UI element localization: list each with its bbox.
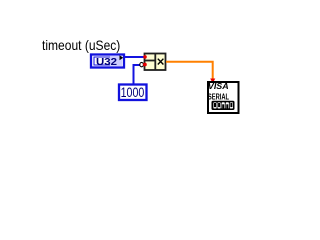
coercion dot top input bbox=[143, 55, 147, 59]
terminal U32 outer frame bbox=[91, 55, 124, 68]
svg-text:VISA: VISA bbox=[208, 82, 229, 91]
wire 1000 to multiply (blue, up then right) bbox=[134, 65, 141, 85]
wire U32 to multiply (blue) bbox=[125, 56, 144, 58]
arrowhead red pointing down bbox=[210, 79, 215, 84]
coercion dot bottom input bbox=[143, 63, 147, 67]
multiply node x symbol bbox=[158, 59, 164, 65]
wire multiply to VISA (orange) bbox=[166, 62, 213, 79]
terminal U32 inner box bbox=[94, 56, 122, 67]
terminal U32 output arrow bbox=[120, 55, 124, 60]
junction ring at multiply lower input bbox=[140, 62, 144, 66]
connector block bbox=[212, 101, 235, 110]
constant 1000 box bbox=[119, 85, 147, 101]
svg-text:U32: U32 bbox=[96, 57, 118, 68]
multiply node body bbox=[144, 53, 166, 70]
label timeout (uSec) bbox=[42, 37, 120, 53]
svg-text:1000: 1000 bbox=[121, 85, 145, 101]
svg-text:SERIAL: SERIAL bbox=[208, 93, 229, 102]
VISA serial icon frame bbox=[208, 82, 239, 113]
